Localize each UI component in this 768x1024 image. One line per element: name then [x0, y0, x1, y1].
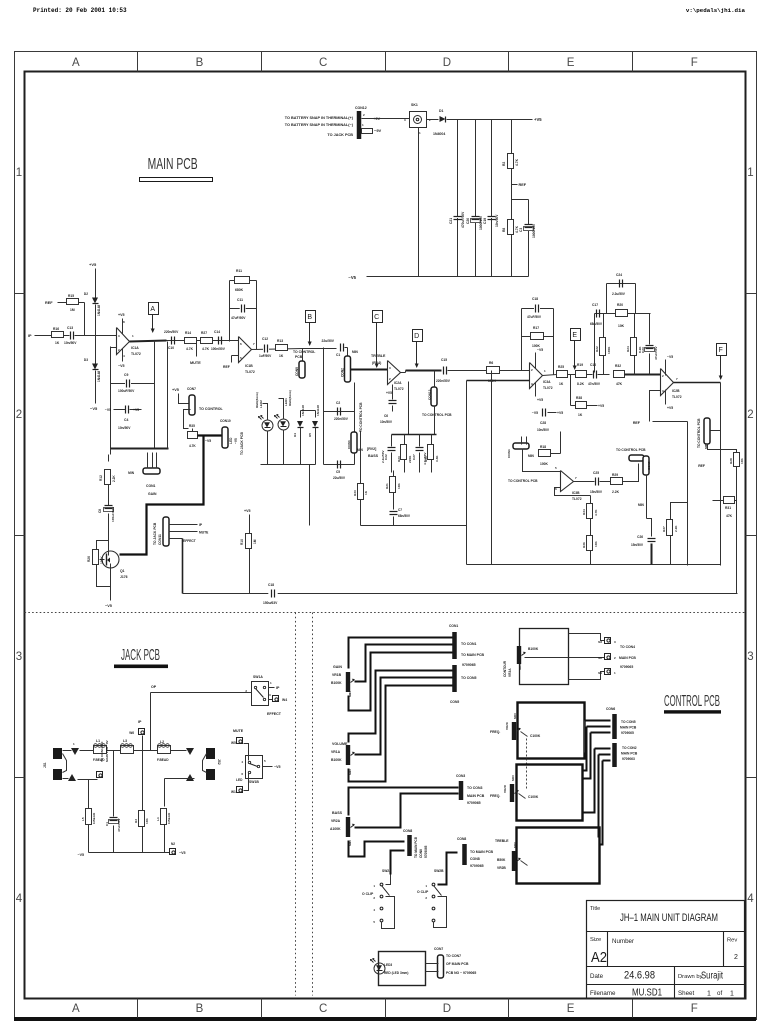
LED LED2 RED 3mm [262, 420, 273, 431]
svg-text:1K: 1K [559, 382, 564, 386]
reference node F box [717, 344, 727, 356]
svg-text:−V5: −V5 [234, 438, 238, 444]
wire IC3A pin3 feed [467, 380, 530, 382]
capacitor C21 470uF/50V [453, 216, 462, 218]
svg-text:JS2: JS2 [217, 759, 221, 765]
svg-text:v:\pedals\jh1.dia: v:\pedals\jh1.dia [686, 7, 746, 14]
svg-text:B: B [196, 57, 204, 69]
capacitor C1j 47uF/50V [113, 751, 115, 817]
svg-text:R33: R33 [353, 490, 357, 496]
svg-text:R8: R8 [502, 228, 506, 232]
svg-text:C15: C15 [441, 358, 447, 362]
svg-text:470uF/50V: 470uF/50V [461, 211, 465, 228]
svg-text:Title: Title [590, 906, 600, 912]
svg-text:1: 1 [730, 991, 734, 998]
resistor R31 47K [713, 500, 724, 502]
svg-text:CON6: CON6 [606, 707, 615, 711]
potentiometer VR2B treble block [517, 828, 600, 884]
inductor L2 ferrite bead [158, 746, 171, 754]
wire R28 down to rail [736, 467, 738, 594]
svg-text:150u/63V: 150u/63V [263, 601, 278, 605]
svg-text:47K: 47K [616, 382, 623, 386]
svg-text:9709065: 9709065 [462, 663, 476, 667]
capacitor C27 4.7u/50V [419, 435, 421, 447]
svg-text:Sheet: Sheet [678, 990, 694, 997]
svg-text:−V5: −V5 [90, 406, 98, 411]
wire R15 to junction [79, 302, 85, 304]
svg-text:10n/50V: 10n/50V [64, 341, 77, 345]
svg-text:1N4148: 1N4148 [97, 371, 101, 382]
svg-text:TL072: TL072 [131, 352, 141, 356]
svg-text:−V5: −V5 [205, 439, 211, 443]
svg-text:22u/50V: 22u/50V [333, 476, 346, 480]
svg-text:MAIN PCB: MAIN PCB [619, 656, 636, 660]
svg-text:L3: L3 [123, 739, 127, 743]
svg-text:+V5: +V5 [118, 313, 125, 317]
wire bass bottom bracket [349, 841, 365, 857]
svg-text:C18: C18 [268, 583, 274, 587]
svg-text:Surajit: Surajit [701, 971, 723, 982]
svg-text:R32: R32 [615, 364, 621, 368]
svg-text:1N4004: 1N4004 [433, 132, 445, 136]
svg-text:SW2B: SW2B [434, 869, 444, 873]
svg-text:B100K: B100K [331, 758, 342, 762]
svg-text:+V5: +V5 [172, 388, 179, 392]
wire SW1A pin1 to IP [269, 687, 275, 689]
svg-text:4.7K: 4.7K [202, 347, 210, 351]
svg-text:10K: 10K [594, 541, 598, 547]
svg-text:R2: R2 [502, 162, 506, 166]
wire REF loop vertical [687, 422, 689, 566]
svg-text:+V5: +V5 [133, 408, 139, 412]
svg-text:E: E [572, 332, 577, 339]
capacitor C17 68n/50V [596, 310, 598, 318]
svg-text:CON12: CON12 [355, 106, 367, 110]
resistor R34 4.7K vertical [590, 496, 592, 504]
op-amp IC3A TL072 [530, 363, 543, 389]
capacitor C11 47uF/50V [230, 308, 257, 310]
svg-text:TO CON4: TO CON4 [620, 645, 635, 649]
svg-text:9709065: 9709065 [467, 801, 481, 805]
wire CON12 to SK1 [369, 118, 410, 120]
wire lower left rail [361, 525, 467, 527]
svg-text:MUTE: MUTE [233, 729, 244, 733]
resistor R30 3.3K [431, 435, 433, 445]
wire contour pin3 to pad N3 [569, 634, 605, 641]
svg-text:TO JACK PCB: TO JACK PCB [153, 522, 157, 545]
wire IC1B output [252, 349, 303, 350]
svg-text:220n/50V: 220n/50V [436, 379, 451, 383]
svg-text:C3: C3 [519, 228, 523, 232]
title block frame [587, 901, 745, 999]
svg-text:JS1: JS1 [43, 762, 47, 768]
svg-text:10n/50V: 10n/50V [380, 420, 393, 424]
LED cluster top wires [263, 404, 268, 420]
wire freq bundle verticals [583, 727, 587, 771]
svg-text:C1: C1 [105, 822, 109, 826]
resistor R3j 10K vertical [142, 751, 144, 811]
svg-text:47uF/50V: 47uF/50V [231, 316, 246, 320]
svg-text:R3: R3 [134, 819, 138, 823]
wire R6 to IC3A [500, 370, 530, 372]
svg-text:2: 2 [16, 409, 22, 421]
svg-text:TO CON7: TO CON7 [446, 954, 461, 958]
jack pcb bottom rail [89, 852, 170, 854]
svg-text:B100K: B100K [331, 681, 342, 685]
svg-text:3.3K: 3.3K [435, 455, 439, 462]
diode D5 1N4148 [312, 421, 318, 427]
svg-text:C: C [319, 57, 327, 69]
dashed gang line freq [526, 739, 528, 791]
svg-text:LED3: LED3 [384, 963, 392, 967]
svg-text:CON4: CON4 [507, 449, 511, 458]
svg-text:R16: R16 [53, 327, 59, 331]
svg-text:TO CONTROL PCB: TO CONTROL PCB [508, 479, 538, 483]
connector CON1 gain [143, 468, 160, 474]
svg-text:2: 2 [734, 954, 738, 961]
svg-text:MIN: MIN [352, 350, 359, 354]
svg-text:TO CON5: TO CON5 [621, 720, 636, 724]
svg-text:Size: Size [590, 937, 601, 943]
svg-text:2.2K: 2.2K [612, 490, 620, 494]
wire R2 branch [511, 120, 513, 277]
svg-text:OP: OP [151, 685, 157, 689]
svg-text:REF: REF [519, 183, 527, 187]
svg-text:TO CONTROL PCB: TO CONTROL PCB [616, 448, 646, 452]
svg-text:C5: C5 [336, 470, 340, 474]
svg-text:MIN: MIN [513, 843, 517, 849]
svg-text:TL072: TL072 [543, 386, 553, 390]
row tick marks left [15, 293, 25, 295]
wire R32 to IC2B thick [625, 374, 661, 376]
wire IC3A out [543, 375, 557, 376]
svg-text:CON8: CON8 [457, 837, 466, 841]
wire volume pot bundle to CON5 [349, 671, 453, 743]
svg-text:220n/50V: 220n/50V [164, 330, 179, 334]
svg-text:TO CON12 OF: TO CON12 OF [100, 741, 104, 762]
svg-text:−V5: −V5 [532, 411, 538, 415]
capacitor C16 47n/50V [587, 374, 593, 376]
wire left fb vertical [594, 314, 596, 373]
svg-text:VR3A: VR3A [508, 668, 512, 677]
svg-text:CON5: CON5 [647, 461, 651, 470]
wire IC3B pin6 feedback [555, 488, 591, 496]
svg-text:TO CONTROL PCB: TO CONTROL PCB [359, 402, 363, 432]
svg-text:100uF/50V: 100uF/50V [111, 506, 115, 522]
potentiometer VR2C freq block [518, 703, 585, 759]
svg-text:100uF/50V: 100uF/50V [118, 389, 135, 393]
svg-text:C18: C18 [532, 297, 538, 301]
jack JS1 [53, 748, 62, 759]
svg-text:R23: R23 [397, 456, 401, 462]
svg-text:BASS: BASS [332, 811, 343, 815]
wire CON4 to IC3B pin5 [523, 449, 561, 472]
svg-text:D2: D2 [84, 292, 88, 296]
svg-text:IC3B: IC3B [572, 491, 580, 495]
potentiometer VR2D freq block [517, 765, 583, 821]
svg-text:9709063: 9709063 [622, 757, 635, 761]
wire contour pin2 to pad N2c [525, 657, 605, 659]
wire IC2A output thick [401, 372, 406, 374]
wire long vertical mid [466, 381, 468, 565]
svg-text:RED(3mm): RED(3mm) [288, 390, 292, 406]
svg-text:+V5: +V5 [534, 117, 542, 122]
svg-text:R22: R22 [595, 346, 599, 352]
svg-text:PCB: PCB [295, 355, 303, 359]
svg-text:10K: 10K [740, 458, 744, 464]
svg-text:−V5: −V5 [105, 604, 112, 608]
svg-text:R29: R29 [612, 473, 618, 477]
capacitor C18 150uF/63V [268, 588, 277, 597]
svg-text:TO MAIN PCB: TO MAIN PCB [470, 850, 494, 854]
svg-text:D4: D4 [293, 433, 297, 437]
svg-text:−V5: −V5 [105, 408, 111, 412]
svg-text:B100K: B100K [528, 647, 539, 651]
svg-text:RED (LED 3mm): RED (LED 3mm) [384, 971, 408, 975]
svg-text:C28: C28 [540, 421, 546, 425]
connector CON6b control [612, 743, 617, 767]
resistor R27 4.7K [201, 338, 213, 344]
resistor R6 100K [487, 367, 500, 374]
svg-text:GAIN: GAIN [333, 665, 342, 669]
svg-text:R34: R34 [582, 509, 586, 515]
svg-text:+V5: +V5 [244, 509, 251, 513]
op-amp IC1A TL072 [117, 328, 130, 355]
svg-text:R35: R35 [189, 424, 195, 428]
svg-text:TO BATTERY SNAP IN THERMINAL(−: TO BATTERY SNAP IN THERMINAL(−) [285, 123, 354, 127]
svg-text:EFFECT: EFFECT [183, 539, 196, 543]
svg-text:L5: L5 [81, 817, 85, 821]
svg-text:C10: C10 [168, 346, 174, 350]
svg-text:−V5: −V5 [348, 275, 356, 280]
svg-text:J176: J176 [120, 575, 128, 579]
svg-text:IC2B: IC2B [672, 389, 680, 393]
wire R16 to C13 [64, 335, 70, 337]
svg-text:100K: 100K [532, 344, 541, 348]
svg-text:47uF/50V: 47uF/50V [527, 315, 542, 319]
svg-text:100K: 100K [607, 346, 611, 354]
svg-text:A100K: A100K [330, 827, 341, 831]
wire feedback bottom thick [111, 448, 169, 450]
wire main bottom rail [183, 593, 738, 595]
reference node E box [571, 329, 581, 341]
pad N1 [605, 669, 611, 675]
svg-text:FREQ.: FREQ. [490, 730, 500, 734]
wire C21 branch [457, 120, 459, 277]
svg-text:MIN: MIN [528, 454, 535, 458]
svg-text:−V5: −V5 [667, 355, 673, 359]
svg-text:MAIN PCB: MAIN PCB [148, 156, 198, 173]
svg-text:9709065: 9709065 [424, 845, 428, 858]
svg-text:MAIN PCB −9V: MAIN PCB −9V [105, 739, 109, 762]
svg-text:CON13: CON13 [428, 389, 432, 400]
svg-text:68n/50V: 68n/50V [398, 514, 411, 518]
svg-text:CON5: CON5 [450, 700, 459, 704]
svg-text:MIN: MIN [348, 769, 352, 775]
LED cluster bottom rail [267, 431, 269, 465]
svg-text:R38: R38 [576, 396, 582, 400]
wire R26 loop [97, 541, 109, 550]
svg-text:LED: LED [229, 437, 233, 444]
resistor R28 10K vertical [708, 444, 737, 453]
feedback second rail [595, 313, 651, 315]
resistor R11 680K and C11 feedback block [230, 280, 257, 282]
svg-text:C6: C6 [384, 414, 388, 418]
svg-text:10n/50V: 10n/50V [118, 426, 131, 430]
resistor R26 100K gate [100, 559, 105, 561]
svg-text:R10: R10 [240, 539, 244, 545]
resistor R18 100K [539, 450, 551, 457]
svg-text:MU.SD1: MU.SD1 [632, 987, 662, 999]
svg-text:3: 3 [747, 651, 753, 663]
capacitor C15 220n/50V [443, 367, 445, 375]
svg-text:C17: C17 [592, 303, 598, 307]
resistor R36 10K vertical [590, 519, 592, 536]
svg-text:GAIN: GAIN [148, 492, 157, 496]
svg-text:CON8: CON8 [419, 849, 423, 858]
svg-text:SK1: SK1 [411, 103, 418, 107]
wire ring to L4 [164, 779, 166, 807]
svg-text:2.2K: 2.2K [674, 525, 678, 532]
svg-text:2.2u/50V: 2.2u/50V [612, 292, 626, 296]
svg-text:TO JACK PCB: TO JACK PCB [327, 133, 353, 137]
wire IC1A loop to Q1 [110, 449, 112, 455]
wire IC2B output [674, 382, 721, 384]
svg-text:1: 1 [16, 167, 22, 179]
svg-text:IC1A: IC1A [131, 346, 139, 350]
wire C8 to Q1 [108, 514, 110, 551]
resistor R8 4.7K [508, 220, 514, 235]
connector CON3 bass pot [354, 412, 356, 433]
resistor R13 1K [276, 345, 288, 351]
svg-text:10K: 10K [145, 818, 149, 824]
svg-text:68n/50V: 68n/50V [590, 322, 603, 326]
svg-text:R27: R27 [201, 331, 207, 335]
svg-text:+V5: +V5 [667, 406, 673, 410]
svg-text:MIN: MIN [511, 776, 515, 782]
wire long vertical R6 branch [491, 371, 493, 565]
LED LED1 RED 3mm [278, 419, 289, 430]
svg-text:C16: C16 [590, 363, 596, 367]
wire L2 to JS2 [171, 750, 187, 752]
svg-text:TO CON5: TO CON5 [461, 676, 477, 680]
svg-text:VR1B: VR1B [332, 673, 342, 677]
svg-text:D1: D1 [439, 109, 444, 113]
svg-text:CON1: CON1 [146, 484, 156, 488]
svg-text:TL072: TL072 [245, 370, 255, 374]
resistor R22 100K vertical [603, 314, 605, 339]
svg-text:3: 3 [16, 651, 22, 663]
svg-text:100n/50V: 100n/50V [211, 347, 226, 351]
wire L1 to L3 [107, 750, 121, 752]
svg-text:N3: N3 [598, 640, 602, 644]
svg-text:LED: LED [236, 778, 243, 782]
resistor R2 4.7K [508, 154, 514, 169]
node REF stub [512, 184, 518, 186]
svg-text:C24: C24 [616, 273, 622, 277]
svg-text:TO JACK PCB: TO JACK PCB [240, 432, 244, 455]
svg-text:1000/16V: 1000/16V [532, 223, 536, 238]
svg-text:+V5: +V5 [386, 391, 392, 395]
svg-text:SW1B: SW1B [249, 780, 259, 784]
svg-text:CON2: CON2 [341, 368, 345, 377]
wire bass branch vertical [323, 348, 325, 465]
svg-text:Drawn by: Drawn by [678, 974, 703, 980]
capacitor C25 15n/50V [595, 478, 597, 486]
resistor R38 1K [570, 375, 572, 406]
svg-text:100K: 100K [540, 462, 549, 466]
resistor R29 2.2K [600, 481, 611, 483]
svg-text:VR2D: VR2D [503, 784, 507, 793]
svg-text:C: C [319, 1003, 327, 1015]
wire IC3B output [574, 481, 595, 483]
svg-text:F: F [691, 57, 698, 69]
wire IC1A inverting feedback [111, 347, 117, 349]
pad W4 effect detect [269, 699, 273, 701]
capacitor C19 100n/50V [487, 216, 496, 218]
svg-text:4.7K: 4.7K [515, 158, 519, 166]
svg-text:C14: C14 [214, 330, 220, 334]
svg-text:VOLUME: VOLUME [332, 742, 348, 746]
wire contour pin1 to pad N1 [569, 672, 605, 680]
svg-text:TO CONTROL: TO CONTROL [199, 407, 223, 411]
wire -V5 bottom rail [367, 276, 529, 278]
svg-text:TREBLE: TREBLE [371, 354, 386, 358]
column tick marks top [137, 52, 139, 72]
capacitor C7b 68n/50V [390, 511, 398, 513]
wire OP line [151, 692, 252, 694]
bottom thick border bar [14, 1017, 756, 1021]
svg-text:D3: D3 [84, 358, 88, 362]
svg-text:TO MAIN PCB: TO MAIN PCB [414, 836, 418, 858]
svg-text:MIN: MIN [128, 471, 135, 475]
wire SW2A to CON8a [365, 842, 405, 847]
svg-text:100K: 100K [100, 556, 104, 564]
svg-text:MAIN PCB: MAIN PCB [620, 726, 637, 730]
wire bass pair to CON3 [349, 788, 459, 816]
svg-text:W1: W1 [231, 790, 236, 794]
wire R12 to C8 [108, 485, 110, 507]
svg-text:9709065: 9709065 [620, 665, 633, 669]
svg-text:REF: REF [223, 365, 230, 369]
svg-text:4: 4 [16, 893, 23, 905]
svg-text:MIN: MIN [638, 503, 645, 507]
svg-text:IC3A: IC3A [543, 380, 551, 384]
svg-text:CONTROL PCB: CONTROL PCB [664, 693, 720, 710]
svg-text:2.2K: 2.2K [112, 475, 116, 482]
wire LED cluster to lower rail [309, 465, 311, 526]
svg-text:47K: 47K [726, 514, 733, 518]
svg-text:FREQ.: FREQ. [490, 794, 500, 798]
svg-text:C19: C19 [483, 218, 487, 224]
reference node C box [373, 311, 383, 323]
svg-text:C4: C4 [124, 418, 128, 422]
capacitor C26 15n/50V vertical [646, 475, 648, 519]
wire D2 to junction [95, 305, 97, 364]
svg-text:C12: C12 [262, 337, 268, 341]
capacitor C5 22u/50V [354, 454, 356, 465]
connector CON4 volume pot [513, 443, 529, 449]
wire R25-R19 [568, 374, 576, 376]
capacitor C20 100uF/16V [470, 216, 479, 223]
svg-text:1uF/50V: 1uF/50V [259, 354, 272, 358]
wire C3 branch [528, 200, 530, 277]
resistor R16 1K [52, 332, 64, 338]
svg-text:VR2C: VR2C [505, 721, 509, 730]
svg-text:R26: R26 [87, 556, 91, 562]
node MUTE stub [196, 341, 198, 357]
svg-text:R37: R37 [662, 526, 666, 532]
